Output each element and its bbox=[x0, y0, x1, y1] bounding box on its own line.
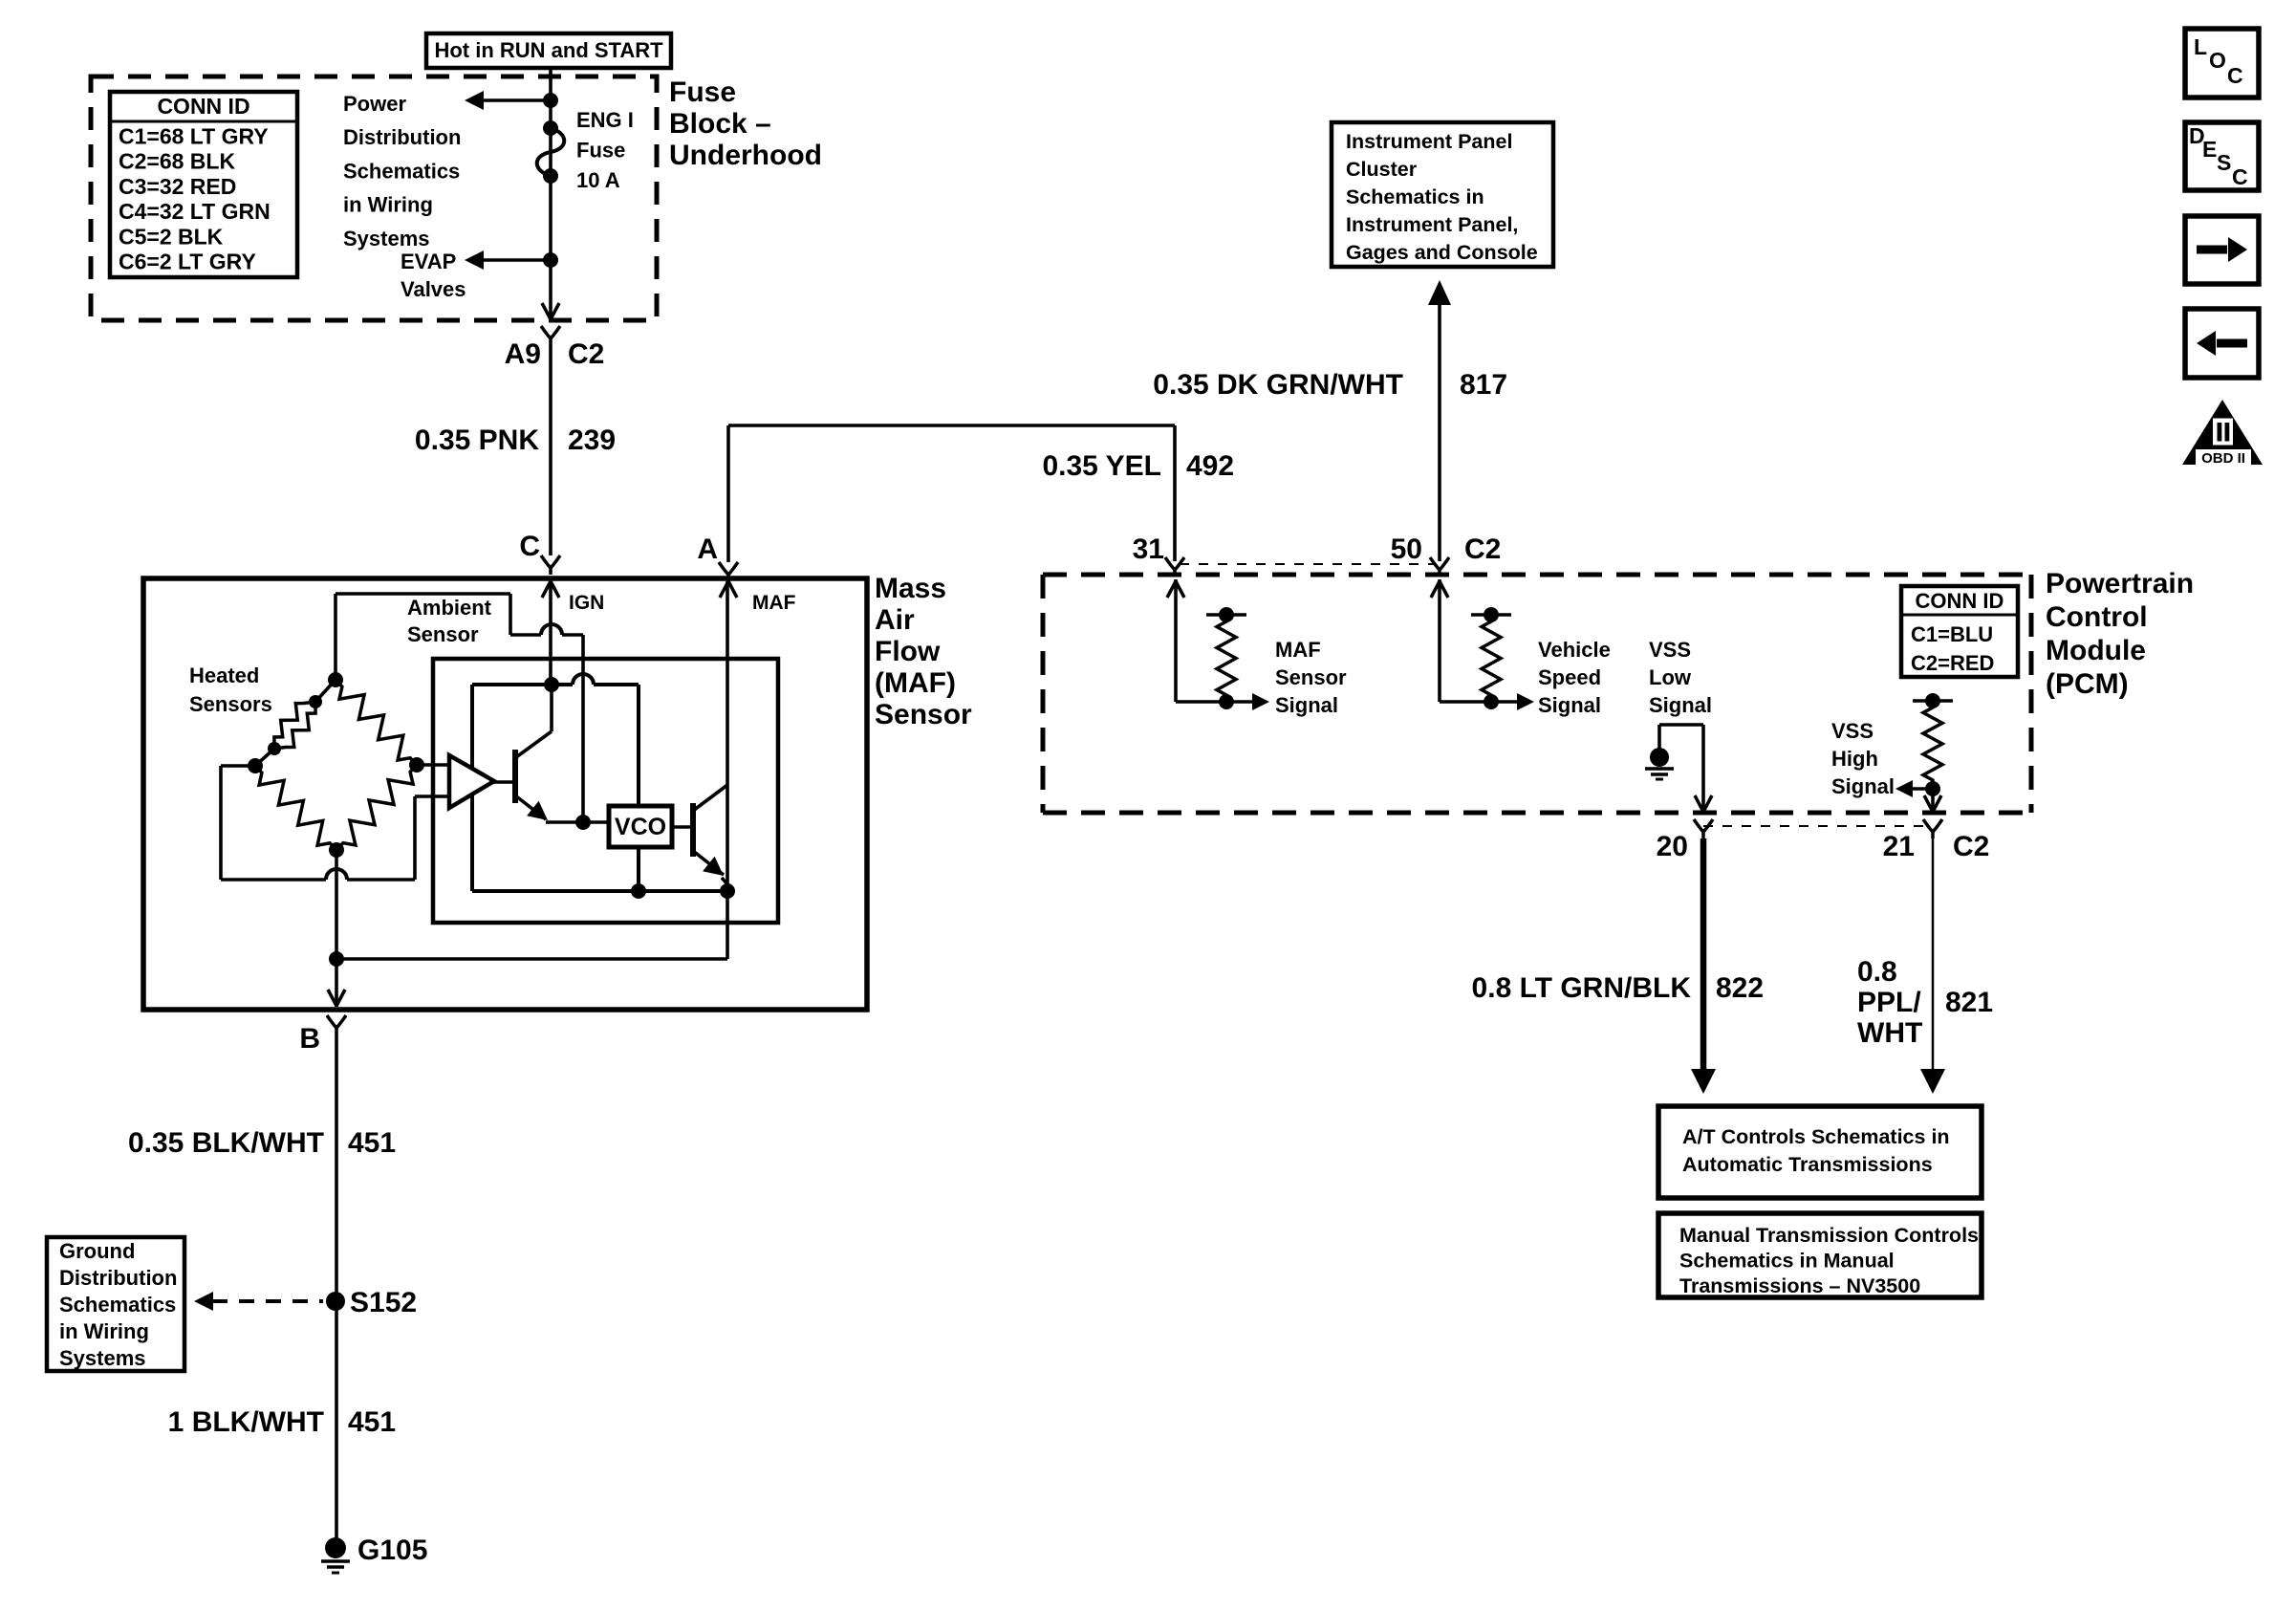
svg-text:A/T Controls Schematics in: A/T Controls Schematics in bbox=[1682, 1125, 1950, 1148]
svg-text:Flow: Flow bbox=[875, 636, 941, 667]
svg-text:Signal: Signal bbox=[1538, 693, 1601, 717]
svg-text:C2: C2 bbox=[1953, 831, 1989, 862]
svg-text:Power: Power bbox=[343, 92, 406, 116]
svg-text:Schematics: Schematics bbox=[343, 159, 460, 183]
svg-text:Ground: Ground bbox=[59, 1239, 135, 1263]
svg-text:Valves: Valves bbox=[401, 277, 466, 301]
svg-text:Signal: Signal bbox=[1831, 774, 1895, 798]
svg-text:0.35 BLK/WHT: 0.35 BLK/WHT bbox=[128, 1127, 324, 1159]
svg-text:239: 239 bbox=[568, 425, 616, 456]
svg-text:50: 50 bbox=[1391, 533, 1422, 565]
svg-text:Signal: Signal bbox=[1275, 693, 1338, 717]
svg-text:C2=68 BLK: C2=68 BLK bbox=[119, 149, 235, 174]
svg-text:EVAP: EVAP bbox=[401, 250, 456, 273]
svg-text:Heated: Heated bbox=[189, 664, 259, 687]
svg-text:B: B bbox=[299, 1023, 320, 1055]
svg-text:1 BLK/WHT: 1 BLK/WHT bbox=[168, 1406, 324, 1438]
svg-text:Low: Low bbox=[1649, 665, 1692, 689]
svg-text:Fuse: Fuse bbox=[576, 139, 625, 163]
svg-text:Powertrain: Powertrain bbox=[2046, 568, 2194, 599]
svg-text:0.35 DK GRN/WHT: 0.35 DK GRN/WHT bbox=[1153, 369, 1403, 401]
svg-text:Cluster: Cluster bbox=[1346, 158, 1418, 181]
svg-text:MAF: MAF bbox=[1275, 638, 1321, 662]
svg-text:C: C bbox=[2227, 63, 2243, 88]
svg-text:A9: A9 bbox=[505, 338, 541, 370]
svg-text:in Wiring: in Wiring bbox=[59, 1319, 149, 1343]
svg-text:Ambient: Ambient bbox=[407, 596, 492, 620]
svg-text:PPL/: PPL/ bbox=[1857, 987, 1921, 1018]
svg-text:Mass: Mass bbox=[875, 573, 946, 604]
svg-text:Sensor: Sensor bbox=[875, 699, 972, 730]
svg-text:C2: C2 bbox=[1464, 533, 1501, 565]
svg-text:WHT: WHT bbox=[1857, 1017, 1922, 1049]
svg-text:Systems: Systems bbox=[343, 227, 430, 250]
svg-text:OBD II: OBD II bbox=[2201, 450, 2245, 467]
svg-text:822: 822 bbox=[1716, 972, 1764, 1004]
svg-text:10 A: 10 A bbox=[576, 168, 620, 192]
svg-text:451: 451 bbox=[348, 1406, 396, 1438]
svg-text:Transmissions – NV3500: Transmissions – NV3500 bbox=[1679, 1274, 1920, 1297]
svg-text:(PCM): (PCM) bbox=[2046, 668, 2129, 700]
svg-text:VSS: VSS bbox=[1649, 638, 1691, 662]
svg-text:C3=32 RED: C3=32 RED bbox=[119, 174, 236, 199]
svg-text:31: 31 bbox=[1133, 533, 1164, 565]
svg-text:C6=2 LT GRY: C6=2 LT GRY bbox=[119, 250, 256, 274]
svg-text:817: 817 bbox=[1460, 369, 1507, 401]
svg-text:Sensor: Sensor bbox=[1275, 665, 1347, 689]
svg-text:Systems: Systems bbox=[59, 1346, 146, 1370]
svg-text:Distribution: Distribution bbox=[343, 125, 461, 149]
svg-text:C5=2 BLK: C5=2 BLK bbox=[119, 224, 224, 249]
svg-text:0.35 PNK: 0.35 PNK bbox=[415, 425, 539, 456]
svg-text:Underhood: Underhood bbox=[669, 140, 822, 171]
svg-text:Module: Module bbox=[2046, 635, 2146, 666]
svg-text:Schematics: Schematics bbox=[59, 1293, 176, 1317]
svg-text:Schematics in: Schematics in bbox=[1346, 185, 1484, 208]
svg-text:C: C bbox=[2232, 164, 2248, 189]
svg-text:High: High bbox=[1831, 747, 1878, 771]
svg-text:Fuse: Fuse bbox=[669, 76, 736, 108]
svg-text:C2: C2 bbox=[568, 338, 604, 370]
svg-text:Speed: Speed bbox=[1538, 665, 1601, 689]
svg-text:0.8: 0.8 bbox=[1857, 956, 1897, 988]
svg-text:MAF: MAF bbox=[752, 592, 796, 614]
svg-text:Sensors: Sensors bbox=[189, 692, 272, 716]
svg-text:Sensor: Sensor bbox=[407, 622, 479, 646]
svg-text:Vehicle: Vehicle bbox=[1538, 638, 1611, 662]
svg-text:CONN ID: CONN ID bbox=[157, 94, 249, 119]
svg-text:A: A bbox=[697, 533, 718, 565]
svg-text:Distribution: Distribution bbox=[59, 1266, 177, 1290]
svg-text:VCO: VCO bbox=[615, 814, 666, 840]
svg-text:Signal: Signal bbox=[1649, 693, 1712, 717]
svg-text:VSS: VSS bbox=[1831, 719, 1874, 743]
svg-text:C1=BLU: C1=BLU bbox=[1911, 622, 1993, 646]
svg-text:CONN ID: CONN ID bbox=[1916, 589, 2004, 613]
svg-text:451: 451 bbox=[348, 1127, 396, 1159]
svg-text:Manual Transmission Controls: Manual Transmission Controls bbox=[1679, 1224, 1979, 1247]
svg-text:20: 20 bbox=[1657, 831, 1688, 862]
svg-text:Instrument Panel: Instrument Panel bbox=[1346, 130, 1512, 153]
svg-text:C: C bbox=[519, 531, 540, 562]
svg-text:0.35 YEL: 0.35 YEL bbox=[1042, 450, 1161, 482]
svg-text:C2=RED: C2=RED bbox=[1911, 651, 1994, 675]
svg-text:in Wiring: in Wiring bbox=[343, 193, 433, 217]
svg-text:(MAF): (MAF) bbox=[875, 667, 956, 699]
svg-text:21: 21 bbox=[1883, 831, 1915, 862]
svg-text:S152: S152 bbox=[350, 1287, 417, 1318]
svg-text:C4=32 LT GRN: C4=32 LT GRN bbox=[119, 199, 271, 224]
svg-text:821: 821 bbox=[1945, 987, 1993, 1018]
svg-text:Schematics in Manual: Schematics in Manual bbox=[1679, 1250, 1895, 1273]
svg-text:Automatic Transmissions: Automatic Transmissions bbox=[1682, 1153, 1933, 1176]
svg-text:Air: Air bbox=[875, 604, 915, 636]
svg-text:Control: Control bbox=[2046, 601, 2148, 633]
svg-text:Instrument Panel,: Instrument Panel, bbox=[1346, 213, 1518, 236]
svg-text:ENG I: ENG I bbox=[576, 108, 634, 132]
svg-text:Gages and Console: Gages and Console bbox=[1346, 241, 1538, 264]
svg-text:Block –: Block – bbox=[669, 108, 771, 140]
svg-text:492: 492 bbox=[1186, 450, 1234, 482]
svg-text:L: L bbox=[2194, 34, 2207, 59]
svg-text:S: S bbox=[2217, 150, 2231, 175]
svg-text:Hot in RUN and START: Hot in RUN and START bbox=[434, 38, 663, 62]
svg-text:E: E bbox=[2202, 137, 2217, 162]
svg-text:IGN: IGN bbox=[569, 592, 604, 614]
svg-text:G105: G105 bbox=[357, 1535, 427, 1566]
svg-text:C1=68 LT GRY: C1=68 LT GRY bbox=[119, 124, 269, 149]
svg-text:O: O bbox=[2209, 48, 2226, 73]
svg-text:0.8 LT GRN/BLK: 0.8 LT GRN/BLK bbox=[1472, 972, 1692, 1004]
